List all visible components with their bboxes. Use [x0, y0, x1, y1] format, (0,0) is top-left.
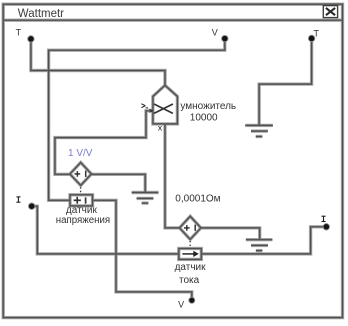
svg-text:V: V [178, 299, 184, 309]
svg-text:x: x [158, 123, 163, 133]
svg-text:напряжения: напряжения [56, 215, 110, 226]
svg-text:1 V/V: 1 V/V [68, 148, 93, 159]
svg-text:тока: тока [179, 275, 200, 286]
svg-text:V: V [212, 27, 218, 37]
svg-text:умножитель: умножитель [180, 101, 236, 112]
svg-text:датчик: датчик [175, 262, 207, 273]
svg-text:T: T [314, 29, 320, 39]
svg-text:10000: 10000 [190, 112, 218, 123]
svg-text:0,0001Ом: 0,0001Ом [175, 193, 220, 204]
svg-text:Wattmetr: Wattmetr [18, 8, 64, 20]
svg-text:T: T [16, 28, 22, 38]
